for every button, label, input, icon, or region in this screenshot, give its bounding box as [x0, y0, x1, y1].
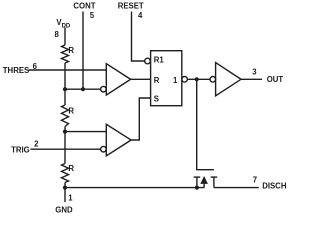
U1 inverting input bubble: [101, 86, 107, 92]
resistor R (top, VDD to THRES node): [62, 45, 69, 63]
latch R1 input bubble: [145, 58, 151, 64]
wire GND stub (pin 1): [64, 183, 66, 203]
svg-text:7: 7: [253, 175, 257, 184]
transistor Q1 drain lead: [213, 177, 215, 188]
node GND/divider junction: [63, 186, 67, 190]
transistor Q1 body arrow: [201, 177, 207, 183]
op-amp U1 threshold comparator: [106, 64, 130, 96]
inverter U4 output buffer: [216, 63, 241, 96]
wire THRES (pin 6) to comparator U1 + input: [29, 69, 107, 71]
svg-text:1: 1: [173, 76, 178, 85]
wire CONT (pin 5) vertical: [82, 12, 84, 90]
wire VDD stub (pin 8): [64, 28, 66, 46]
svg-text:THRES: THRES: [3, 66, 29, 75]
svg-text:8: 8: [55, 30, 60, 39]
svg-text:S: S: [154, 95, 159, 104]
svg-text:GND: GND: [55, 205, 73, 214]
wire divider segment R2-bottom to R3-top: [64, 127, 66, 164]
svg-text:3: 3: [252, 67, 257, 76]
svg-text:2: 2: [34, 139, 39, 148]
op-amp U2 trigger comparator: [106, 124, 131, 156]
svg-text:R1: R1: [154, 55, 165, 64]
inverter U4 input bubble: [210, 77, 216, 83]
wire divider segment R1-bottom to R2-top: [64, 63, 66, 105]
wire U2 output to latch S input: [131, 98, 151, 140]
svg-text:6: 6: [33, 62, 38, 71]
wire latch output to Q1 gate: [197, 79, 214, 169]
svg-text:TRIG: TRIG: [11, 146, 30, 155]
node divider/comp2 junction: [63, 130, 67, 134]
svg-text:R: R: [68, 164, 74, 173]
svg-text:VDD: VDD: [56, 18, 71, 29]
resistor R (bottom): [62, 164, 69, 183]
node divider/comp1 junction: [63, 87, 67, 91]
svg-text:4: 4: [138, 11, 143, 20]
wire divider node to comparator U1 - input: [65, 88, 101, 90]
wire Q1 drain to DISCH (pin 7): [214, 187, 259, 189]
node output/gate junction: [195, 77, 199, 81]
transistor Q1 body lead: [203, 184, 205, 188]
wire U1 output to latch R input: [131, 78, 151, 80]
U2 inverting input bubble: [101, 146, 107, 152]
svg-text:CONT: CONT: [73, 2, 95, 11]
wire divider node to comparator U2 + input: [65, 131, 106, 133]
wire TRIG (pin 2) to comparator U2 - input: [30, 148, 100, 150]
wire GND rail to Q1 source: [65, 187, 204, 189]
wire RESET (pin 4) to latch R1 bubble: [132, 12, 145, 62]
node source/body junction: [195, 186, 199, 190]
svg-text:R: R: [154, 76, 160, 85]
svg-text:RESET: RESET: [118, 2, 144, 11]
svg-text:R: R: [68, 46, 74, 55]
wire latch output to inverter: [187, 78, 210, 80]
latch U3 box: [151, 51, 182, 106]
latch output bubble: [182, 77, 188, 83]
transistor Q1 source contact bar: [194, 176, 201, 178]
transistor Q1 drain contact bar: [211, 176, 218, 178]
svg-text:5: 5: [90, 11, 95, 20]
node CONT junction: [81, 87, 85, 91]
transistor Q1 source lead: [196, 177, 198, 188]
wire OUT (pin 3): [241, 78, 262, 80]
svg-text:1: 1: [68, 193, 73, 202]
svg-text:R: R: [68, 107, 74, 116]
svg-text:DISCH: DISCH: [262, 182, 287, 191]
svg-text:OUT: OUT: [267, 75, 284, 84]
resistor R (middle): [62, 105, 69, 127]
